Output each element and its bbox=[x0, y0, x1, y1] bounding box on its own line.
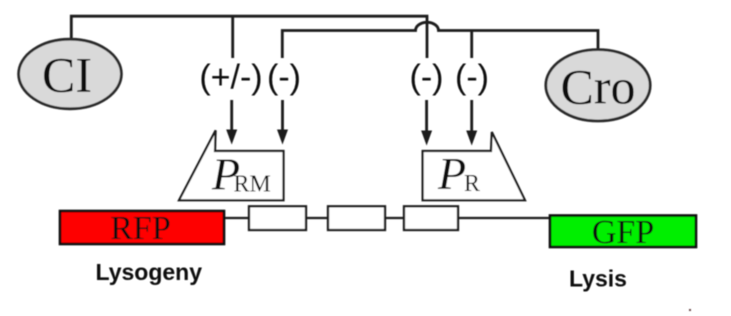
promoter PR bbox=[423, 132, 525, 200]
svg-text:P: P bbox=[437, 148, 466, 199]
svg-text:(-): (-) bbox=[455, 59, 489, 97]
wire drop from Cro rail to PR (-) bbox=[470, 31, 473, 59]
svg-text:CI: CI bbox=[42, 47, 92, 103]
operator box O2 bbox=[328, 206, 385, 230]
promoter PRM bbox=[179, 130, 284, 200]
speck bbox=[689, 309, 691, 311]
svg-text:(+/-): (+/-) bbox=[199, 59, 262, 97]
wire CI to top rail and down to PR bbox=[71, 16, 427, 58]
arrow from (-) to PR left bbox=[421, 100, 432, 146]
DNA wire segments bbox=[224, 217, 550, 219]
gene GFP bbox=[550, 214, 696, 251]
svg-text:Cro: Cro bbox=[561, 59, 636, 115]
wire drop from CI rail to PRM (+/-) bbox=[231, 16, 234, 58]
protein Cro bbox=[546, 50, 650, 121]
arrow from (-) to PR right bbox=[466, 100, 477, 146]
svg-text:RFP: RFP bbox=[110, 210, 171, 247]
svg-text:Lysogeny: Lysogeny bbox=[96, 259, 203, 285]
arrow from (-) to PRM bbox=[277, 100, 288, 145]
svg-text:RM: RM bbox=[234, 172, 271, 198]
svg-text:Lysis: Lysis bbox=[569, 265, 627, 291]
svg-text:(-): (-) bbox=[410, 59, 444, 97]
operator box O1 bbox=[249, 206, 306, 230]
svg-text:(-): (-) bbox=[267, 59, 301, 97]
operator box O3 bbox=[404, 206, 458, 230]
svg-text:R: R bbox=[464, 171, 480, 197]
wire Cro rail with crossover hop bbox=[282, 22, 598, 58]
gene RFP bbox=[60, 210, 224, 247]
svg-text:GFP: GFP bbox=[592, 214, 654, 251]
arrow from (+/-) to PRM bbox=[226, 100, 237, 145]
protein CI bbox=[19, 39, 122, 109]
